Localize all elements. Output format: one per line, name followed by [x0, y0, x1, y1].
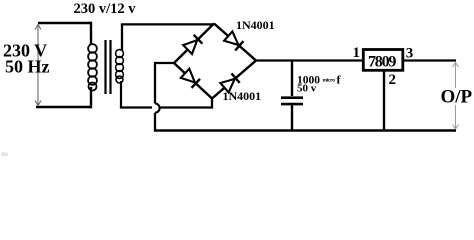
svg-text:1N4001: 1N4001 — [236, 18, 275, 32]
svg-text:O/P: O/P — [441, 87, 473, 108]
arm bottom-right — [212, 61, 256, 99]
arm left-top — [174, 24, 214, 64]
cap top plate — [281, 96, 303, 99]
cap bottom lead — [291, 105, 293, 130]
transformer T1 — [88, 22, 123, 109]
capacitor C1 — [281, 60, 303, 131]
AC source box bottom wire — [36, 106, 91, 109]
core line left — [104, 40, 106, 94]
svg-text:1: 1 — [353, 45, 361, 61]
primary lead bottom — [90, 87, 92, 108]
label O/P — [439, 88, 473, 105]
AC source box top wire — [38, 22, 91, 25]
arm left-bottom — [174, 63, 212, 99]
wire crossing hop — [155, 104, 160, 113]
svg-text:50 Hz: 50 Hz — [5, 57, 50, 77]
faint artifact bottom-left — [1, 152, 8, 156]
primary lead top — [90, 22, 92, 45]
secondary winding — [116, 50, 124, 83]
svg-text:3: 3 — [406, 46, 414, 62]
svg-text:50 v: 50 v — [297, 83, 317, 95]
output voltage double arrow — [453, 63, 459, 130]
cap top lead — [291, 60, 293, 97]
bridge rectifier arms — [174, 24, 256, 99]
AC source voltage double arrow — [35, 25, 41, 106]
wire up to bridge bottom corner — [211, 98, 213, 109]
primary winding — [88, 44, 97, 90]
pin 2 ground wire — [383, 71, 385, 131]
cap bottom plate — [281, 103, 303, 106]
diode D3 (left-bottom arm) — [181, 69, 200, 88]
ground bus wire — [154, 129, 456, 132]
secondary lead top — [121, 24, 123, 51]
core line right — [109, 40, 111, 94]
DC+ wire bridge right to regulator — [256, 59, 363, 61]
wire bridge left corner to ground drop — [155, 62, 174, 64]
secondary lead bottom — [120, 81, 122, 108]
diode D2 (top-right arm) — [224, 31, 243, 50]
wire secondary bottom to bridge (right of hop) — [161, 106, 213, 108]
wire ground drop vertical lower — [154, 113, 156, 130]
diode D4 (bottom-right arm) — [220, 73, 239, 92]
diode D1 (left-top arm) — [183, 35, 202, 54]
svg-text:7809: 7809 — [368, 54, 396, 71]
arm top-right — [214, 24, 256, 61]
regulator U1 7809 box — [363, 50, 403, 71]
wire ground drop vertical upper — [154, 62, 156, 104]
svg-text:2: 2 — [389, 72, 397, 88]
wire secondary bottom to bridge (left of hop) — [120, 106, 152, 108]
svg-text:micro: micro — [323, 78, 336, 84]
svg-text:1N4001: 1N4001 — [223, 89, 262, 103]
pin 3 output wire — [403, 59, 456, 61]
wire secondary top to bridge — [121, 23, 214, 25]
svg-text:230 v/12 v: 230 v/12 v — [74, 1, 137, 17]
